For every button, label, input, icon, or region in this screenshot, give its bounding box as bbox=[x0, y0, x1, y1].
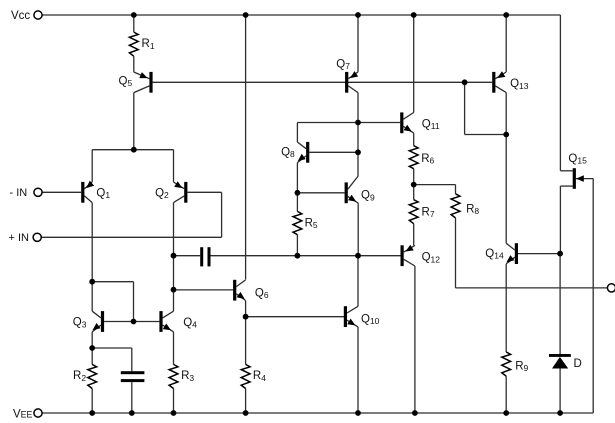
svg-text:Q12: Q12 bbox=[422, 252, 441, 265]
svg-text:Vcc: Vcc bbox=[11, 10, 30, 22]
svg-text:R4: R4 bbox=[253, 370, 266, 383]
svg-text:Q9: Q9 bbox=[361, 190, 375, 203]
svg-text:Q3: Q3 bbox=[73, 317, 87, 330]
svg-text:Q6: Q6 bbox=[255, 287, 269, 300]
svg-text:VEE: VEE bbox=[13, 408, 33, 420]
svg-text:D: D bbox=[574, 358, 582, 370]
svg-text:R7: R7 bbox=[422, 207, 435, 220]
svg-text:+ IN: + IN bbox=[9, 232, 30, 244]
svg-text:Q4: Q4 bbox=[183, 317, 197, 330]
svg-text:Q15: Q15 bbox=[568, 153, 587, 166]
svg-text:Q13: Q13 bbox=[510, 78, 529, 91]
svg-text:R3: R3 bbox=[181, 370, 194, 383]
svg-text:R5: R5 bbox=[305, 218, 318, 231]
svg-text:R8: R8 bbox=[466, 204, 479, 217]
svg-text:R6: R6 bbox=[421, 153, 434, 166]
svg-text:Q7: Q7 bbox=[336, 58, 350, 71]
svg-text:Q1: Q1 bbox=[96, 188, 110, 201]
svg-text:R9: R9 bbox=[515, 360, 528, 373]
svg-text:Q5: Q5 bbox=[119, 76, 133, 89]
svg-text:R2: R2 bbox=[73, 370, 86, 383]
svg-text:Q8: Q8 bbox=[281, 147, 295, 160]
svg-text:Q11: Q11 bbox=[422, 119, 440, 132]
svg-text:R1: R1 bbox=[142, 38, 155, 51]
svg-text:Q14: Q14 bbox=[485, 248, 504, 261]
svg-text:Q2: Q2 bbox=[155, 188, 169, 201]
svg-text:Q10: Q10 bbox=[361, 314, 380, 327]
svg-text:- IN: - IN bbox=[10, 187, 28, 199]
